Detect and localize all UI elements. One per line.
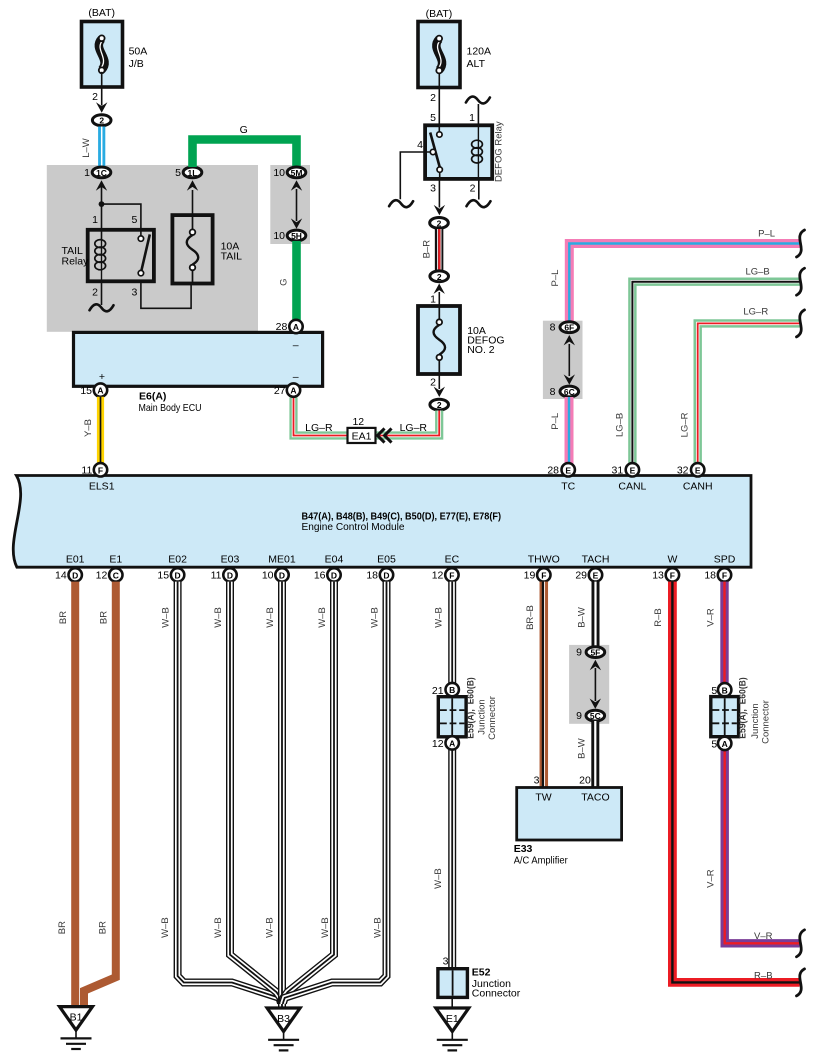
svg-text:F: F: [670, 570, 675, 580]
svg-text:18: 18: [366, 569, 378, 581]
svg-text:A: A: [722, 739, 728, 749]
svg-text:TAIL: TAIL: [221, 251, 243, 263]
wire DEFOG relay pin 1 with break: [466, 97, 490, 126]
svg-text:E6(A): E6(A): [139, 391, 166, 403]
svg-text:D: D: [72, 570, 78, 580]
wire W-B from E05 to ground B3: [283, 582, 387, 1003]
wire P-L lower to TC: [550, 397, 569, 465]
svg-text:13: 13: [652, 569, 664, 581]
TAIL relay coil: [95, 239, 106, 281]
svg-text:E52: E52: [472, 967, 491, 979]
ECM bottom pin labels row: [66, 554, 736, 566]
svg-text:EC: EC: [445, 554, 460, 566]
svg-text:2: 2: [430, 92, 436, 104]
svg-text:R–B: R–B: [653, 608, 664, 626]
wire to 10A DEFOG NO.2 fuse: [430, 292, 439, 306]
svg-text:10: 10: [262, 569, 274, 581]
svg-text:W–B: W–B: [433, 868, 444, 889]
fuse 120A ALT: [418, 22, 491, 88]
svg-text:12: 12: [432, 738, 444, 750]
connector oval 5F: [576, 647, 605, 671]
ECM pin 32 E CANH: [677, 463, 713, 492]
svg-text:LG–R: LG–R: [400, 422, 428, 434]
svg-text:1L: 1L: [188, 168, 198, 178]
svg-text:8: 8: [550, 322, 556, 334]
connector oval 6F: [550, 322, 579, 346]
svg-text:5F: 5F: [590, 648, 600, 658]
svg-text:1: 1: [92, 214, 98, 226]
svg-text:B: B: [722, 685, 728, 695]
wire G from 1L to 5M: [193, 124, 297, 167]
svg-text:11: 11: [81, 464, 92, 476]
wire W-B from E03 to ground B3: [213, 582, 281, 1004]
svg-text:Connector: Connector: [487, 696, 498, 740]
svg-text:P–L: P–L: [550, 270, 561, 287]
wire B-R: [422, 229, 442, 271]
svg-text:TW: TW: [535, 792, 551, 804]
svg-text:3: 3: [430, 183, 436, 195]
svg-text:A/C Amplifier: A/C Amplifier: [514, 855, 568, 867]
svg-text:D: D: [227, 570, 233, 580]
svg-text:W–B: W–B: [372, 917, 383, 938]
svg-text:LG–R: LG–R: [743, 307, 768, 318]
wire TAIL relay pin 3 to 10A TAIL fuse: [132, 281, 192, 308]
svg-text:11: 11: [211, 569, 222, 581]
svg-text:2: 2: [92, 287, 98, 299]
svg-text:P–L: P–L: [758, 229, 775, 240]
svg-text:9: 9: [576, 647, 582, 659]
connector oval 1C: [84, 167, 111, 191]
svg-text:2: 2: [437, 218, 442, 228]
gray connector box 5M/5H: [270, 165, 310, 244]
svg-text:E: E: [630, 465, 636, 475]
svg-text:12: 12: [96, 569, 108, 581]
relay box DEFOG Relay: [425, 121, 504, 182]
junction connector E59/E60 on EC line: [432, 677, 498, 750]
svg-text:2: 2: [437, 400, 442, 410]
ground B1: [60, 1007, 93, 1049]
wire DEFOG relay pin 2 with break: [467, 179, 491, 207]
svg-text:ELS1: ELS1: [89, 480, 115, 492]
svg-text:W–B: W–B: [265, 607, 276, 628]
wire W-B from ME01 to ground B3: [265, 582, 282, 1009]
wire W-B from junction connector to E52: [433, 749, 452, 969]
svg-text:CANL: CANL: [618, 480, 646, 492]
wire P-L upper with break: [550, 229, 804, 322]
svg-text:Connector: Connector: [472, 988, 521, 1000]
wire V-R from SPD to junction connector: [706, 582, 725, 684]
svg-text:5M: 5M: [291, 168, 303, 178]
svg-text:LG–R: LG–R: [680, 412, 691, 437]
svg-text:E33: E33: [514, 843, 533, 855]
svg-text:ALT: ALT: [467, 58, 486, 70]
pin 28 A on Main Body ECU: [276, 320, 303, 333]
svg-text:2: 2: [430, 377, 436, 389]
svg-text:A: A: [293, 322, 299, 332]
wire 1C to TAIL relay pins 1 and 5: [92, 186, 141, 240]
wire W-B from EC to junction connector: [434, 582, 453, 684]
fuse 10A TAIL: [172, 215, 242, 283]
svg-text:W: W: [667, 554, 677, 566]
wire E52 to ground E1: [451, 997, 453, 1009]
relay box TAIL Relay: [62, 230, 154, 281]
svg-text:10: 10: [273, 167, 285, 179]
svg-text:E59(A), E60(B): E59(A), E60(B): [738, 677, 749, 739]
svg-text:5: 5: [430, 112, 436, 124]
svg-text:G: G: [240, 124, 248, 136]
ECM pin 31 E CANL: [612, 463, 647, 492]
svg-text:E04: E04: [325, 554, 344, 566]
svg-text:W–B: W–B: [160, 917, 171, 938]
svg-text:120A: 120A: [467, 46, 492, 58]
svg-text:10: 10: [273, 230, 285, 242]
svg-text:28: 28: [547, 464, 559, 476]
wire W-B from E04 to ground B3: [283, 582, 334, 1004]
svg-text:3: 3: [534, 775, 540, 787]
connector EA1: [348, 416, 392, 443]
connector oval 1L: [175, 167, 202, 191]
svg-text:E02: E02: [168, 554, 187, 566]
svg-text:BR: BR: [57, 921, 68, 934]
svg-text:1: 1: [84, 167, 90, 179]
wire R-B from W with break: [653, 582, 805, 996]
wire V-R from junction connector with break: [706, 749, 805, 957]
svg-text:B–R: B–R: [422, 240, 433, 259]
svg-text:THWO: THWO: [528, 554, 560, 566]
svg-text:BR: BR: [99, 611, 110, 624]
svg-text:50A: 50A: [129, 46, 148, 58]
svg-text:F: F: [722, 570, 727, 580]
TAIL relay switch: [138, 234, 150, 275]
svg-text:E05: E05: [377, 554, 396, 566]
svg-text:D: D: [175, 570, 181, 580]
svg-text:(BAT): (BAT): [88, 7, 115, 19]
svg-text:Junction: Junction: [750, 703, 761, 738]
svg-text:W–B: W–B: [434, 607, 445, 628]
svg-text:A: A: [97, 386, 103, 396]
svg-text:LG–R: LG–R: [305, 422, 333, 434]
svg-text:L–W: L–W: [81, 138, 92, 158]
svg-text:A: A: [449, 738, 455, 748]
wire LG-B with break: [614, 267, 804, 465]
ECM pin 11 F ELS1: [81, 463, 114, 492]
junction connector E59/E60 on SPD line: [711, 677, 772, 750]
svg-text:19: 19: [524, 569, 536, 581]
wire 10A TAIL fuse to 1L: [192, 190, 194, 215]
svg-text:W–B: W–B: [369, 607, 380, 628]
svg-text:J/B: J/B: [129, 58, 144, 70]
svg-text:EA1: EA1: [352, 430, 372, 442]
svg-text:15: 15: [80, 385, 92, 397]
svg-text:D: D: [331, 570, 337, 580]
svg-text:D: D: [279, 570, 285, 580]
svg-text:W–B: W–B: [213, 607, 224, 628]
svg-text:18: 18: [704, 569, 716, 581]
wire TAIL relay pin 2 with break: [90, 281, 114, 311]
wire LG-R right with break: [680, 307, 805, 466]
wire from 50A fuse to connector 2: [92, 72, 107, 113]
svg-text:1: 1: [469, 112, 475, 124]
svg-text:W–B: W–B: [160, 607, 171, 628]
svg-text:TACO: TACO: [581, 792, 609, 804]
ground B3: [267, 1008, 300, 1050]
svg-text:F: F: [541, 570, 546, 580]
svg-text:F: F: [449, 570, 454, 580]
fuse 10A DEFOG NO. 2: [418, 306, 505, 374]
ground E1: [436, 1008, 469, 1050]
svg-text:–: –: [293, 340, 299, 352]
connector oval 5H: [273, 218, 305, 242]
svg-text:5: 5: [175, 167, 181, 179]
svg-text:E03: E03: [221, 554, 240, 566]
svg-text:5: 5: [711, 739, 717, 751]
wire 120A ALT to DEFOG relay pin 5: [430, 74, 439, 125]
wire BR from E01 to ground B1: [57, 582, 75, 1008]
ECM bottom pin circles: [55, 568, 731, 581]
svg-text:4: 4: [417, 139, 423, 151]
box Main Body ECU: [74, 332, 323, 414]
svg-text:E1: E1: [109, 554, 122, 566]
svg-text:V–R: V–R: [706, 608, 717, 627]
box E33 A/C Amplifier: [514, 788, 622, 867]
svg-text:W–B: W–B: [265, 917, 276, 938]
wire fuse to connector 2 bottom: [430, 374, 445, 397]
gray connector box 6F/6C: [543, 321, 583, 399]
svg-text:15: 15: [157, 569, 169, 581]
svg-text:TACH: TACH: [582, 554, 610, 566]
svg-text:D: D: [383, 570, 389, 580]
svg-text:A: A: [290, 386, 296, 396]
svg-text:3: 3: [443, 956, 449, 968]
connector oval 2 (to LG-R): [430, 399, 449, 410]
svg-text:3: 3: [132, 287, 138, 299]
svg-text:5H: 5H: [291, 231, 302, 241]
svg-text:14: 14: [55, 569, 67, 581]
svg-text:1C: 1C: [96, 168, 107, 178]
wire L-W: [81, 127, 102, 168]
svg-text:9: 9: [576, 710, 582, 722]
svg-text:LG–B: LG–B: [614, 413, 625, 437]
svg-text:E1: E1: [446, 1013, 459, 1025]
svg-text:DEFOG Relay: DEFOG Relay: [494, 121, 505, 182]
svg-text:6F: 6F: [564, 323, 574, 333]
svg-text:29: 29: [575, 569, 587, 581]
svg-text:CANH: CANH: [683, 480, 713, 492]
svg-text:C: C: [113, 570, 119, 580]
svg-text:BR: BR: [97, 921, 108, 934]
svg-text:Relay: Relay: [62, 256, 90, 268]
svg-text:E: E: [593, 570, 599, 580]
wire between 5M and 5H: [296, 189, 298, 221]
svg-text:W–B: W–B: [213, 917, 224, 938]
connector oval 6C: [550, 374, 579, 398]
svg-text:B: B: [449, 685, 455, 695]
wire BR from E1 joining B1: [84, 582, 116, 1008]
svg-text:27: 27: [274, 385, 286, 397]
wire G from 5H to 28A: [278, 241, 296, 323]
svg-text:W–B: W–B: [317, 607, 328, 628]
DEFOG relay switch: [430, 127, 442, 178]
svg-text:E: E: [565, 465, 571, 475]
svg-text:1: 1: [430, 293, 436, 305]
wire Y-B: [83, 397, 101, 464]
svg-text:32: 32: [677, 464, 689, 476]
wire DEFOG relay pin 3 to connector 2: [430, 179, 445, 215]
svg-text:20: 20: [579, 775, 591, 787]
wire BR-B from THWO to E33: [525, 582, 545, 788]
svg-text:(BAT): (BAT): [426, 8, 453, 20]
svg-text:F: F: [98, 465, 103, 475]
connector oval 2 upper (defog): [430, 218, 449, 229]
svg-text:31: 31: [612, 464, 624, 476]
svg-text:B–W: B–W: [577, 738, 588, 759]
wire LG-R through EA1: [294, 398, 440, 436]
fuse 50A J/B: [82, 22, 148, 88]
wire DEFOG relay pin 4 with break: [389, 139, 430, 207]
svg-text:SPD: SPD: [714, 554, 736, 566]
pin 15 A: [80, 383, 107, 397]
svg-text:V–R: V–R: [754, 931, 773, 942]
svg-text:BR: BR: [58, 611, 69, 624]
svg-text:–: –: [293, 371, 299, 383]
svg-text:Y–B: Y–B: [83, 419, 94, 437]
svg-text:LG–B: LG–B: [745, 267, 769, 278]
box Engine Control Module: [13, 476, 751, 568]
svg-text:NO. 2: NO. 2: [467, 344, 495, 356]
svg-text:2: 2: [99, 116, 104, 126]
svg-text:12: 12: [432, 569, 444, 581]
svg-text:E: E: [695, 465, 701, 475]
svg-text:Main Body ECU: Main Body ECU: [139, 402, 202, 414]
svg-text:ME01: ME01: [268, 554, 296, 566]
junction connector E52: [438, 956, 521, 1000]
svg-text:B–W: B–W: [577, 607, 588, 628]
svg-text:5: 5: [132, 214, 138, 226]
svg-text:8: 8: [550, 386, 556, 398]
svg-text:G: G: [278, 279, 289, 286]
connector oval 5C: [576, 699, 604, 723]
gray connector box 5F/5C: [569, 645, 609, 724]
svg-text:R–B: R–B: [754, 971, 772, 982]
connector oval 2 lower (defog): [430, 271, 449, 294]
svg-text:W–B: W–B: [320, 917, 331, 938]
svg-text:16: 16: [314, 569, 326, 581]
svg-text:5C: 5C: [590, 711, 601, 721]
svg-text:6C: 6C: [564, 387, 575, 397]
pin 27 A: [274, 383, 300, 397]
connector oval 2 below 50A fuse: [92, 115, 111, 126]
svg-text:2: 2: [92, 91, 98, 103]
svg-text:B1: B1: [70, 1012, 83, 1024]
svg-text:V–R: V–R: [706, 869, 717, 888]
svg-text:Connector: Connector: [761, 700, 772, 744]
svg-text:2: 2: [470, 183, 476, 195]
gray harness box around TAIL relay: [47, 165, 258, 332]
svg-text:E59(A), E60(B): E59(A), E60(B): [465, 677, 476, 739]
svg-text:TC: TC: [561, 480, 575, 492]
wire between 5F and 5C: [594, 668, 596, 701]
svg-text:12: 12: [352, 416, 364, 428]
svg-text:2: 2: [437, 272, 442, 282]
svg-text:P–L: P–L: [550, 413, 561, 430]
wire B-W from 5C to E33 TACO: [577, 721, 596, 788]
wire between 6F and 6C: [568, 344, 570, 376]
wire B-W from TACH to 5F: [577, 582, 596, 648]
svg-text:Engine Control Module: Engine Control Module: [302, 521, 405, 533]
svg-text:Junction: Junction: [476, 699, 487, 734]
svg-text:B3: B3: [277, 1013, 290, 1025]
wire W-B from E02 to ground B3: [160, 582, 281, 1003]
DEFOG relay coil: [472, 127, 483, 178]
svg-text:+: +: [99, 371, 105, 383]
connector oval 5M: [273, 167, 305, 191]
svg-text:BR–B: BR–B: [525, 605, 536, 630]
svg-text:E01: E01: [66, 554, 85, 566]
ECM pin 28 E TC: [547, 463, 575, 492]
svg-text:28: 28: [276, 321, 288, 333]
